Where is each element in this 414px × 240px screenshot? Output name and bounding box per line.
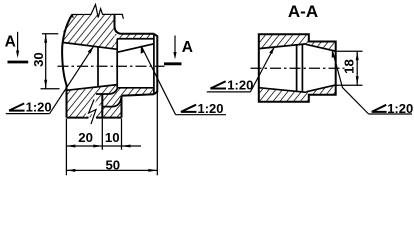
svg-text:1:20: 1:20 [198,101,224,116]
tube bottom face [121,94,154,95]
taper label 1 shelf [6,113,50,115]
bottom face [67,117,122,119]
foot recess shoulder with fillet [103,96,122,106]
hatch tube top band [115,34,154,49]
svg-text:A: A [182,39,193,56]
hatch A-A top-right [309,42,335,51]
section arrow right [174,36,176,54]
upper-left taper line [63,43,117,50]
svg-text:A-A: A-A [288,2,318,21]
A-A centerline [251,67,345,69]
rim lip vertical [153,34,155,94]
plug hole vertical [116,39,118,88]
taper label 2 (right of left view) symbol [181,105,197,112]
dim 18 extension lines [336,51,362,85]
taper label 4 leader (bent) [332,50,368,114]
dim extension lines bottom [66,93,157,176]
hatch tube bottom band [118,88,154,96]
tube inner top line [117,38,154,40]
taper label 2 leader [141,46,175,115]
lower wavy break line white casing [89,100,96,125]
A-A lower-left taper [259,88,306,93]
taper label 3 shelf [207,91,251,93]
svg-text:18: 18 [341,59,356,74]
hatch A-A bottom-right [309,85,335,94]
channel bottom right line with fillet [96,88,154,94]
dim 10 right arrow (outside) [122,145,131,148]
taper label 4 shelf [369,113,412,115]
upper-right taper line [118,44,154,52]
section mark A left: thick line [8,61,29,64]
taper label 2 shelf [176,114,226,116]
A-A upper-right taper [306,44,336,51]
dim 50 line [66,169,157,171]
hatch lower body [67,85,122,118]
section arrow left [17,32,19,52]
dim 30 line [45,34,47,89]
foot left edge [101,94,103,118]
hatch upper wall [62,15,114,51]
A-A upper-left taper [259,44,306,49]
boss right edge + fillet + tube top face [115,14,154,33]
break line top (freehand with zigzag) [72,5,123,19]
A-A hole verticals [297,44,303,92]
dim 20 line [66,145,141,147]
hatch A-A bottom-left [259,88,309,101]
left profile arc [62,15,72,118]
A-A lower-right taper [306,85,336,92]
taper label 1 leader [50,47,94,114]
svg-text:50: 50 [105,157,120,172]
svg-text:30: 30 [31,52,46,67]
dim 18 line [356,51,358,85]
svg-text:20: 20 [78,130,93,145]
foot right edge [121,96,123,118]
centerline left view [58,65,165,67]
svg-text:A: A [5,33,16,50]
plug hole near-edge vertical [97,47,99,87]
svg-text:1:20: 1:20 [26,100,52,115]
taper label 3 leader [250,47,274,92]
right end face with chamfers [154,34,157,94]
lower-left taper line [67,85,118,91]
section mark A right: thick line [164,62,182,65]
taper label 1 (left) symbol [9,103,25,110]
hatch A-A top-left [259,35,309,49]
taper label 3 (A-A left) symbol [210,81,226,88]
svg-text:1:20: 1:20 [227,77,253,92]
A-A outline [259,34,336,101]
dim 30 extension lines [41,34,60,89]
svg-text:10: 10 [105,130,120,145]
taper label 4 (A-A right) symbol [372,105,387,112]
lower wavy break line [89,100,96,125]
